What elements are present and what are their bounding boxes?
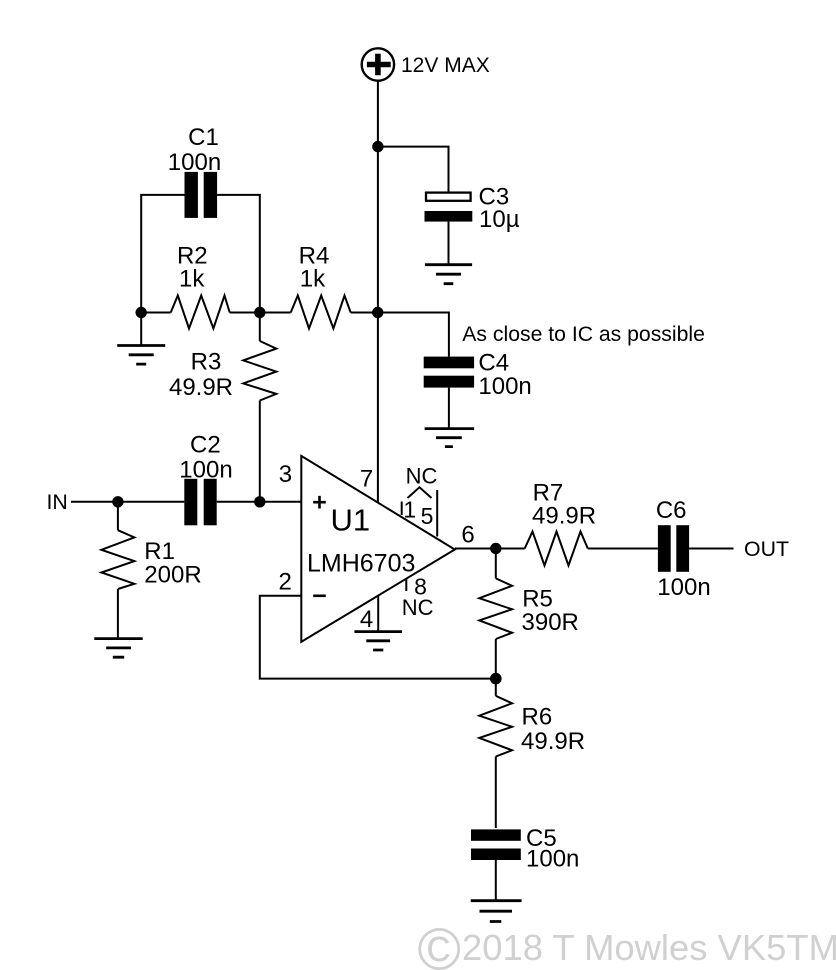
pin 1 stub xyxy=(401,502,403,516)
wire R2 left junction to ground xyxy=(140,313,142,346)
svg-text:As close to IC as possible: As close to IC as possible xyxy=(462,323,705,346)
node rail junction at R4 xyxy=(372,307,383,318)
ground below C3 xyxy=(425,265,472,284)
resistor R2 xyxy=(141,296,260,329)
wire junction to C3 xyxy=(378,147,449,192)
capacitor C1 loop wires xyxy=(141,195,260,313)
capacitor C5 xyxy=(471,829,521,860)
wire pin 4 to ground xyxy=(377,596,379,632)
node power junction xyxy=(372,141,383,152)
svg-text:100n: 100n xyxy=(657,574,710,601)
wire junction to C4 xyxy=(378,313,449,357)
capacitor C4 xyxy=(424,357,474,388)
power supply symbol +12V xyxy=(362,48,394,80)
capacitor C1 xyxy=(185,172,218,218)
wire C4 to ground xyxy=(448,388,450,429)
wire C2 to pin 3 xyxy=(217,501,302,503)
svg-text:100n: 100n xyxy=(526,846,579,873)
svg-text:LMH6703: LMH6703 xyxy=(307,550,415,578)
svg-text:100n: 100n xyxy=(478,373,531,400)
svg-text:R6: R6 xyxy=(522,703,553,730)
minus input marking xyxy=(313,594,326,597)
node IN junction xyxy=(112,496,123,507)
resistor R4 xyxy=(260,296,378,329)
capacitor C2 xyxy=(184,479,216,526)
svg-text:C6: C6 xyxy=(656,497,687,524)
ground below pin 4 xyxy=(354,632,402,650)
svg-text:49.9R: 49.9R xyxy=(532,502,596,529)
svg-text:2018 T Mowles VK5TM: 2018 T Mowles VK5TM xyxy=(462,927,836,968)
svg-text:1: 1 xyxy=(403,497,416,523)
svg-text:OUT: OUT xyxy=(744,537,789,561)
wire IN to junction xyxy=(71,501,118,503)
wire power symbol to rail junction xyxy=(377,81,379,147)
svg-text:IN: IN xyxy=(47,490,68,514)
svg-text:U1: U1 xyxy=(331,502,371,537)
plus input marking xyxy=(313,496,326,509)
svg-text:100n: 100n xyxy=(168,149,221,176)
resistor R3 xyxy=(243,313,276,502)
ground below R2 left junction xyxy=(117,346,165,365)
capacitor C3 xyxy=(425,193,473,222)
resistor R5 xyxy=(479,549,512,679)
ground below C4 xyxy=(425,429,475,447)
svg-text:1k: 1k xyxy=(179,265,205,292)
svg-text:49.9R: 49.9R xyxy=(521,728,585,755)
resistor R6 xyxy=(479,679,512,828)
pin 8 stub xyxy=(405,579,407,591)
wire IN junction to C2 xyxy=(118,501,184,503)
node feedback junction xyxy=(490,673,502,685)
svg-text:200R: 200R xyxy=(144,562,201,589)
node C2/R3 junction xyxy=(254,496,265,507)
svg-text:C1: C1 xyxy=(188,124,219,151)
svg-text:12V MAX: 12V MAX xyxy=(401,54,490,77)
op-amp U1 xyxy=(301,456,455,642)
resistor R1 xyxy=(101,502,134,639)
node R2 left junction xyxy=(136,307,147,318)
wire C5 to ground xyxy=(495,860,497,901)
svg-text:2: 2 xyxy=(279,568,292,595)
wire pin 2 feedback xyxy=(260,596,496,679)
NC chevron pins 1 and 5 xyxy=(408,487,432,498)
svg-text:NC: NC xyxy=(402,595,434,620)
svg-text:7: 7 xyxy=(360,465,373,492)
svg-text:5: 5 xyxy=(421,503,434,529)
svg-text:100n: 100n xyxy=(179,457,232,484)
pin 5 stub xyxy=(436,490,438,537)
svg-text:©: © xyxy=(418,916,461,970)
ground below R1 xyxy=(94,639,142,658)
svg-text:R3: R3 xyxy=(191,349,222,376)
svg-text:10µ: 10µ xyxy=(479,206,520,233)
resistor R7 xyxy=(525,532,658,566)
wire C3 to ground xyxy=(448,222,450,265)
svg-text:6: 6 xyxy=(461,522,474,549)
svg-text:49.9R: 49.9R xyxy=(169,374,233,401)
svg-text:NC: NC xyxy=(406,463,438,488)
capacitor C6 xyxy=(658,525,689,572)
node R2/R4/R3 junction xyxy=(254,307,265,318)
svg-text:C2: C2 xyxy=(190,432,221,459)
node output junction xyxy=(490,543,501,554)
wire power rail to op-amp pin 7 xyxy=(377,147,379,503)
svg-text:1k: 1k xyxy=(300,265,326,292)
svg-text:390R: 390R xyxy=(522,609,579,636)
svg-text:4: 4 xyxy=(360,606,373,633)
wire output pin 6 xyxy=(455,548,525,550)
ground below C5 xyxy=(471,901,522,922)
svg-text:3: 3 xyxy=(279,461,292,488)
wire C6 to OUT xyxy=(689,548,733,550)
